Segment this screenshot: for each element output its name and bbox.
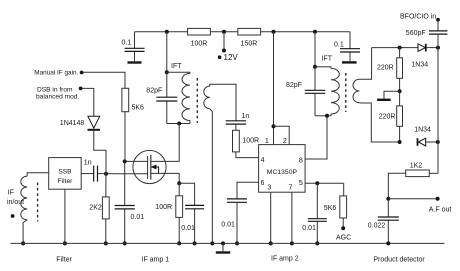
svg-text:0.022: 0.022	[368, 223, 386, 230]
node AGC terminal	[341, 226, 345, 230]
resistor 100R (supply)	[188, 28, 211, 35]
svg-text:Product detector: Product detector	[373, 256, 425, 263]
junction pin7 to rail	[290, 241, 294, 245]
capacitor 1n (filter output)	[94, 166, 98, 182]
wire 220R2 bottom lead	[399, 126, 401, 142]
svg-text:Manual IF gain.: Manual IF gain.	[34, 70, 78, 77]
wire pin 6 lead and bypass	[237, 182, 259, 243]
capacitor 1n (interstage)	[226, 121, 246, 124]
svg-text:82pF: 82pF	[146, 87, 162, 94]
inductor IFT1 primary winding	[182, 73, 190, 120]
capacitor 0.022	[378, 217, 399, 220]
wire source bypass branch	[179, 183, 194, 243]
wire IFT1 primary top link	[167, 71, 190, 73]
capacitor 0.01 (gate2 bypass)	[115, 206, 135, 209]
gate electrode bar Q1	[147, 156, 149, 179]
wire 220R1 bottom lead	[399, 78, 401, 91]
capacitor 560pF	[429, 31, 447, 34]
capacitor 0.1 (right decoupling)	[340, 49, 360, 52]
junction detector bus top	[436, 46, 440, 50]
junction rail ground symbol	[221, 241, 225, 245]
wire 1K2 to AF node	[388, 173, 405, 198]
junction pin5 cap to rail	[315, 241, 319, 245]
svg-text:4: 4	[261, 157, 265, 164]
wire IFT1 primary coil ends	[189, 72, 191, 123]
wire 82pF branch (IFT1)	[166, 72, 168, 123]
node IFT2 primary top	[313, 65, 317, 69]
wire 5K6 to gate2	[124, 112, 126, 162]
wire pin 4 lead	[236, 152, 259, 158]
wire IC pin1 feed	[273, 32, 275, 145]
svg-text:IFT: IFT	[171, 63, 182, 70]
wire pin 3 lead	[270, 192, 272, 243]
wire BFO to 560pF	[437, 20, 439, 31]
resistor 220R (lower)	[397, 106, 403, 126]
resistor 2K2	[102, 197, 109, 219]
junction AF output node	[386, 197, 390, 201]
resistor 220R (upper)	[397, 58, 403, 79]
junction source cap to rail	[193, 241, 197, 245]
wire detector ground branch	[384, 91, 400, 98]
svg-text:150R: 150R	[241, 40, 258, 47]
resistor 150R (supply)	[238, 28, 261, 35]
wire 2K2 branch	[105, 174, 107, 244]
junction SSB filter to rail	[63, 241, 67, 245]
ground (left 0.1 cap)	[128, 61, 142, 63]
svg-text:0.1: 0.1	[122, 40, 132, 47]
junction source node	[177, 181, 181, 185]
wire IF coil bottom lead	[23, 220, 27, 244]
wire gate1 lead	[106, 173, 148, 175]
node manual IF gain terminal	[80, 71, 84, 75]
svg-text:balanced mod.: balanced mod.	[36, 93, 79, 100]
junction IFT1 secondary to ground rail	[210, 241, 214, 245]
junction 220R top node	[398, 46, 402, 50]
wire manual gain to 5K6	[84, 72, 126, 88]
wire source lead	[151, 173, 179, 183]
wire gate2 bypass branch	[124, 161, 126, 243]
capacitor 0.01 (source bypass)	[185, 205, 204, 208]
wire SSB filter ground lead	[64, 189, 66, 243]
junction source resistor to rail	[177, 241, 181, 245]
wire ground symbol stem	[222, 243, 224, 251]
wire IFT1 primary top feed	[166, 32, 168, 73]
wire bus to 1K2	[429, 172, 438, 174]
diode D1 1N4148 cathode bar	[88, 129, 101, 131]
svg-text:AGC: AGC	[336, 235, 351, 242]
svg-text:Filter: Filter	[56, 256, 72, 263]
wire IF coil top lead	[27, 173, 49, 176]
ground rail (bottom)	[11, 242, 445, 244]
ground (right 0.1 cap)	[342, 61, 357, 63]
wire 0.022 branch	[387, 199, 389, 244]
core line IFT2	[345, 73, 347, 112]
svg-text:BFO/CIO in: BFO/CIO in	[400, 14, 436, 21]
resistor 100R (source)	[176, 196, 183, 218]
node gate2 junction	[123, 159, 127, 163]
svg-text:220R: 220R	[377, 65, 394, 72]
junction rail to IFT1 feed	[165, 30, 169, 34]
junction gate2 cap to rail	[123, 241, 127, 245]
wire D3 cathode to bus	[427, 47, 438, 49]
svg-text:82pF: 82pF	[286, 82, 302, 89]
node BFO/CIO terminal	[436, 18, 440, 22]
diode D4 1N34 triangle	[418, 138, 425, 146]
wire 1n to 100R	[235, 124, 237, 130]
svg-text:1n: 1n	[84, 160, 92, 167]
svg-text:3: 3	[267, 185, 271, 192]
svg-text:0.1: 0.1	[334, 42, 344, 49]
svg-text:5K6: 5K6	[324, 205, 337, 212]
wire SSB filter output	[81, 173, 93, 175]
inductor IFT1 secondary winding	[204, 86, 210, 109]
junction rail to IFT2	[313, 30, 317, 34]
resistor 1K2	[406, 170, 430, 177]
junction 0.022 to rail	[386, 241, 390, 245]
wire IFT2 primary bottom link	[315, 115, 331, 117]
wire 0.1 decoupling cap branch	[134, 32, 136, 62]
wire IFT1 secondary bottom lead	[210, 109, 213, 244]
wire pin2 loop	[274, 126, 290, 144]
junction detector bottom node	[398, 140, 402, 144]
diode D3 1N34 triangle	[418, 44, 425, 52]
diode D1 1N4148 triangle	[88, 116, 100, 128]
svg-text:1n: 1n	[242, 113, 250, 120]
wire IFT1 primary bottom link	[167, 123, 190, 125]
capacitor 0.01 (pin6 bypass)	[227, 199, 247, 202]
junction 2K2 to rail	[104, 241, 108, 245]
wire 1n to gate1 node	[98, 173, 107, 175]
wire 82pF branch (IFT2)	[314, 67, 316, 116]
svg-text:DSB in from: DSB in from	[37, 86, 73, 93]
svg-text:0.01: 0.01	[221, 222, 235, 229]
junction rail to IC pins 1-2	[272, 30, 276, 34]
inductor IF in/out winding	[21, 176, 27, 220]
diode D4 1N34 cathode bar	[417, 138, 419, 146]
wire diode to gate1 node	[94, 131, 106, 174]
block SSB Filter box	[49, 158, 81, 190]
wire AF out line	[388, 198, 437, 200]
svg-text:0.01: 0.01	[302, 225, 316, 232]
junction IFT2 bottom to pin8	[325, 114, 329, 118]
junction detector bus mid	[436, 140, 440, 144]
ground (detector midpoint)	[377, 99, 391, 101]
svg-text:220R: 220R	[379, 114, 396, 121]
node IFT1 primary top	[165, 70, 169, 74]
svg-text:6: 6	[260, 180, 264, 187]
node DSB input terminal	[79, 87, 83, 91]
node A.F out terminal	[436, 197, 440, 201]
wire detector top line	[372, 47, 418, 49]
junction pin6 cap to rail	[235, 241, 239, 245]
svg-text:SSB: SSB	[58, 169, 72, 176]
wire +12V stub	[223, 32, 225, 51]
svg-text:1K2: 1K2	[410, 162, 423, 169]
svg-text:5K6: 5K6	[132, 105, 145, 112]
junction +12V tap on rail	[222, 30, 226, 34]
wire gate2 lead	[125, 160, 148, 162]
wire IFT2 primary top link	[315, 66, 331, 68]
wire 220R1 top lead	[399, 48, 401, 58]
node IF in/out terminal	[11, 214, 15, 218]
svg-text:MC1350P: MC1350P	[267, 169, 298, 176]
svg-text:100R: 100R	[155, 204, 172, 211]
capacitor 82pF (IFT2 tune)	[305, 90, 325, 93]
node gate1 junction (1n/2K2)	[104, 172, 108, 176]
channel bar Q1	[150, 155, 152, 180]
svg-text:0.01: 0.01	[181, 225, 195, 232]
resistor 100R (pin4 feed)	[233, 130, 240, 152]
wire source resistor branch	[178, 183, 180, 243]
wire AGC stub	[342, 218, 344, 228]
wire pin 7 lead	[291, 192, 293, 243]
svg-text:5: 5	[299, 180, 303, 187]
junction pins 1-2 tie	[272, 124, 276, 128]
wire IFT2 primary feed	[314, 32, 316, 67]
wire detector bus	[437, 34, 439, 173]
svg-text:100R: 100R	[191, 40, 208, 47]
junction 220R midpoint	[398, 89, 402, 93]
wire 0.1 right branch	[349, 32, 351, 62]
capacitor 0.01 (pin5 bypass)	[308, 219, 327, 222]
svg-text:Filter: Filter	[58, 178, 73, 185]
junction IF coil to rail	[21, 241, 25, 245]
wire drain to IFT1	[151, 124, 179, 162]
transistor Q1 dual-gate MOSFET body	[133, 150, 166, 183]
substrate arrow Q1	[151, 167, 158, 173]
svg-text:A.F out: A.F out	[429, 207, 452, 214]
svg-text:560pF: 560pF	[406, 30, 426, 37]
svg-text:1N4148: 1N4148	[60, 120, 85, 127]
resistor 5K6 (AGC)	[340, 196, 347, 218]
wire AGC 5K6 branch	[343, 183, 345, 196]
svg-text:8: 8	[299, 157, 303, 164]
core line IFT1	[196, 78, 198, 123]
wire IFT1 secondary top lead	[210, 84, 236, 121]
svg-text:1N34: 1N34	[414, 127, 431, 134]
capacitor 82pF (IFT1 tune)	[156, 97, 177, 101]
op-amp U1 MC1350P body	[259, 145, 306, 193]
svg-text:1: 1	[265, 138, 269, 145]
diode D3 1N34 cathode bar	[425, 44, 427, 52]
svg-text:IFT: IFT	[322, 56, 333, 63]
junction pin3 to rail	[269, 241, 273, 245]
wire 0.01 pin5 bypass branch	[316, 183, 318, 243]
top +12V supply rail	[135, 31, 351, 33]
svg-text:IF amp 2: IF amp 2	[271, 256, 299, 263]
svg-text:IF: IF	[8, 189, 14, 196]
svg-text:2: 2	[283, 138, 287, 145]
svg-text:2K2: 2K2	[89, 204, 102, 211]
svg-text:IF amp 1: IF amp 1	[142, 256, 170, 263]
inductor IFT2 secondary winding	[353, 79, 359, 102]
bullet +12V	[218, 55, 222, 59]
wire IFT2 secondary bottom lead	[359, 103, 399, 142]
svg-text:100R: 100R	[242, 138, 259, 145]
svg-text:12V: 12V	[224, 53, 239, 62]
wire pin 5 lead	[305, 182, 344, 184]
core line IF transformer	[37, 183, 39, 222]
wire 220R2 top lead	[399, 91, 401, 106]
resistor 5K6 (gate2)	[122, 88, 129, 111]
wire IFT2 secondary top lead	[359, 48, 371, 80]
wire D4 anode to bus	[426, 141, 438, 143]
svg-text:7: 7	[289, 185, 293, 192]
junction IFT1 bottom to drain	[177, 122, 181, 126]
wire IFT2 primary coil ends	[330, 67, 332, 116]
capacitor 0.1 (left decoupling)	[125, 48, 145, 51]
node +12V stub end	[222, 49, 226, 53]
svg-text:0.01: 0.01	[131, 214, 145, 221]
wire pin 8 lead	[305, 116, 327, 159]
ground (main rail)	[216, 251, 230, 253]
inductor IFT2 primary winding	[331, 68, 339, 114]
junction pin5 bypass node	[315, 181, 319, 185]
svg-text:1N34: 1N34	[411, 62, 428, 69]
wire DSB to diode	[83, 88, 94, 116]
